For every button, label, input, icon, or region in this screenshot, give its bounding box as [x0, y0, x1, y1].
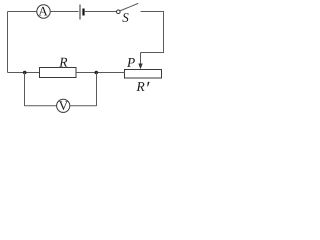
- wire right drop to voltmeter loop: [96, 73, 98, 107]
- wire top-left from left rail to ammeter: [8, 11, 37, 13]
- label R': [136, 82, 144, 91]
- switch label S: [122, 13, 128, 22]
- label R: [59, 58, 67, 67]
- node left junction dot: [23, 71, 27, 75]
- battery long plate (+): [79, 5, 81, 20]
- switch S blade: [120, 3, 138, 10]
- wiper arrow shaft: [140, 53, 142, 65]
- label P: [127, 58, 135, 67]
- wire battery to switch: [85, 11, 117, 13]
- wire resistor R to rheostat: [76, 72, 125, 74]
- voltmeter V1 label V: [59, 101, 68, 110]
- node right junction dot: [95, 71, 99, 75]
- wire left drop to voltmeter loop: [24, 73, 26, 107]
- rheostat R' box: [125, 70, 162, 79]
- switch S pivot circle: [117, 10, 121, 14]
- resistor R box: [40, 68, 77, 78]
- ammeter A1 label A: [38, 7, 47, 16]
- battery short thick plate (-): [82, 9, 84, 16]
- wire left rail: [7, 12, 9, 73]
- wire voltmeter to bottom-right: [70, 105, 97, 107]
- ammeter A1 circle: [37, 5, 50, 18]
- wire right rail down: [163, 12, 165, 54]
- voltmeter V1 circle: [57, 99, 70, 112]
- wire step left to wiper: [141, 52, 165, 54]
- wiper arrowhead P: [138, 64, 142, 70]
- wire ammeter to battery: [50, 11, 78, 13]
- wire middle rail from left to resistor R: [8, 72, 40, 74]
- wire bottom loop left to voltmeter: [25, 105, 57, 107]
- wire switch to top-right corner: [141, 11, 164, 13]
